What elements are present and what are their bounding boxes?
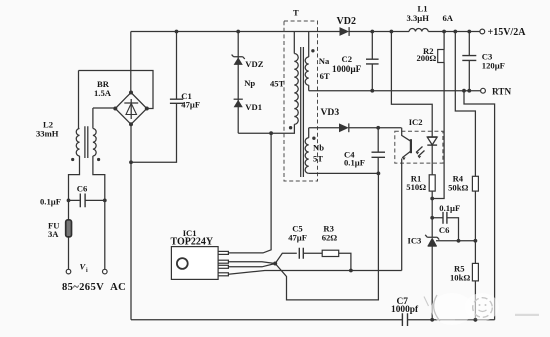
svg-text:IC3: IC3 bbox=[408, 236, 422, 246]
svg-text:L1: L1 bbox=[418, 4, 428, 14]
svg-text:VDZ: VDZ bbox=[245, 59, 263, 69]
svg-text:3.3µH: 3.3µH bbox=[407, 13, 430, 23]
svg-text:0.1µF: 0.1µF bbox=[344, 158, 365, 168]
svg-text:200Ω: 200Ω bbox=[417, 53, 437, 63]
svg-text:6A: 6A bbox=[443, 13, 454, 23]
svg-text:Nb: Nb bbox=[313, 143, 324, 153]
svg-text:5T: 5T bbox=[313, 154, 323, 164]
svg-text:0.1µF: 0.1µF bbox=[439, 203, 460, 213]
svg-text:T: T bbox=[293, 8, 299, 18]
svg-text:C6: C6 bbox=[77, 184, 88, 194]
svg-text:1.5A: 1.5A bbox=[94, 88, 112, 98]
svg-text:C2: C2 bbox=[342, 54, 353, 64]
svg-text:VD1: VD1 bbox=[245, 102, 262, 112]
svg-text:TOP224Y: TOP224Y bbox=[171, 237, 214, 248]
svg-text:3A: 3A bbox=[48, 229, 59, 239]
svg-text:C6: C6 bbox=[439, 225, 450, 235]
svg-text:VD2: VD2 bbox=[337, 16, 356, 27]
svg-text:50kΩ: 50kΩ bbox=[448, 183, 468, 193]
svg-text:VD3: VD3 bbox=[321, 107, 340, 118]
svg-text:47µF: 47µF bbox=[181, 100, 200, 110]
svg-text:510Ω: 510Ω bbox=[406, 182, 426, 192]
svg-text:47µF: 47µF bbox=[288, 233, 307, 243]
svg-text:62Ω: 62Ω bbox=[322, 233, 338, 243]
svg-text:120µF: 120µF bbox=[482, 61, 505, 71]
svg-text:10kΩ: 10kΩ bbox=[450, 273, 470, 283]
svg-text:Na: Na bbox=[319, 56, 330, 66]
svg-text:+15V/2A: +15V/2A bbox=[488, 27, 527, 38]
svg-text:1000µF: 1000µF bbox=[332, 64, 362, 74]
svg-text:85~265V AC: 85~265V AC bbox=[62, 282, 126, 293]
svg-text:RTN: RTN bbox=[492, 87, 511, 97]
svg-text:33mH: 33mH bbox=[36, 129, 59, 139]
svg-text:IC2: IC2 bbox=[409, 117, 423, 127]
svg-text:0.1µF: 0.1µF bbox=[40, 197, 61, 207]
svg-text:45T: 45T bbox=[270, 79, 285, 89]
svg-text:Np: Np bbox=[244, 78, 255, 88]
svg-text:1000pf: 1000pf bbox=[391, 305, 419, 315]
svg-text:6T: 6T bbox=[320, 71, 330, 81]
